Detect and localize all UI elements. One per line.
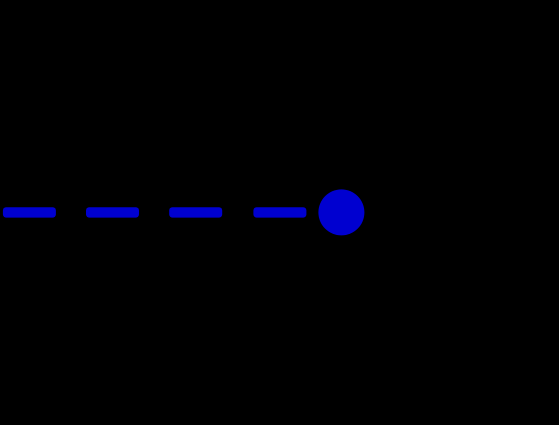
dash segment 2 (86, 207, 139, 217)
dash segment 4 (253, 207, 306, 217)
ball (filled circle) (318, 189, 364, 235)
dash segment 1 (3, 207, 56, 217)
dash segment 3 (169, 207, 222, 217)
